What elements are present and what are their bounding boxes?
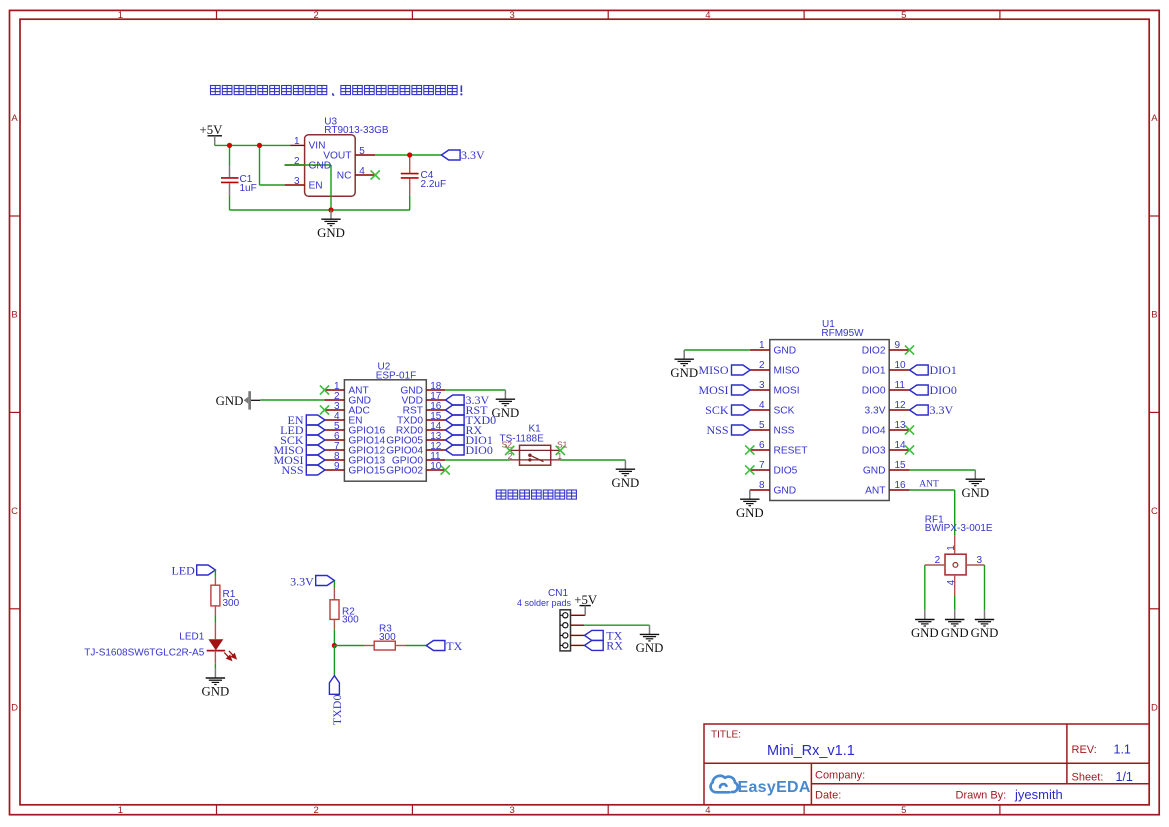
svg-text:300: 300: [379, 632, 396, 643]
svg-text:S1: S1: [557, 440, 568, 450]
svg-text:3: 3: [977, 555, 983, 566]
svg-text:1.1: 1.1: [1114, 743, 1131, 757]
svg-text:NC: NC: [337, 170, 352, 181]
svg-text:1: 1: [118, 10, 123, 21]
svg-text:Date:: Date:: [815, 790, 841, 802]
svg-text:ESP-01F: ESP-01F: [376, 370, 417, 381]
svg-text:7: 7: [759, 460, 765, 471]
svg-text:TJ-S1608SW6TGLC2R-A5: TJ-S1608SW6TGLC2R-A5: [84, 648, 204, 659]
svg-text:1: 1: [759, 340, 765, 351]
svg-text:11: 11: [895, 380, 906, 391]
svg-text:1/1: 1/1: [1116, 770, 1133, 784]
svg-text:9: 9: [334, 461, 340, 472]
svg-text:Mini_Rx_v1.1: Mini_Rx_v1.1: [767, 743, 855, 759]
svg-text:8: 8: [759, 480, 765, 491]
svg-text:3: 3: [294, 176, 300, 187]
svg-text:A: A: [11, 113, 18, 124]
svg-text:SCK: SCK: [705, 403, 729, 417]
svg-text:SCK: SCK: [774, 406, 795, 417]
svg-text:RX: RX: [606, 639, 623, 653]
svg-text:C: C: [11, 506, 18, 517]
svg-text:3.3V: 3.3V: [461, 148, 485, 162]
svg-text:5: 5: [759, 420, 765, 431]
svg-text:1: 1: [946, 545, 957, 551]
svg-text:GPIO02: GPIO02: [386, 465, 423, 476]
svg-text:Sheet:: Sheet:: [1072, 772, 1104, 784]
svg-text:jyesmith: jyesmith: [1014, 787, 1063, 802]
svg-text:1uF: 1uF: [240, 183, 257, 194]
svg-text:300: 300: [223, 598, 240, 609]
svg-text:LED1: LED1: [179, 632, 204, 643]
svg-text:3.3V: 3.3V: [930, 403, 954, 417]
svg-text:GND: GND: [774, 486, 797, 497]
svg-text:GPIO15: GPIO15: [348, 465, 385, 476]
svg-text:RT9013-33GB: RT9013-33GB: [324, 125, 389, 136]
svg-text:3: 3: [759, 380, 765, 391]
svg-text:3.3V: 3.3V: [290, 574, 314, 588]
svg-text:16: 16: [895, 480, 907, 491]
svg-text:DIO3: DIO3: [862, 446, 886, 457]
svg-text:EasyEDA: EasyEDA: [738, 779, 811, 796]
svg-text:1: 1: [294, 136, 300, 147]
svg-text:4: 4: [705, 805, 710, 816]
svg-text:MISO: MISO: [698, 363, 728, 377]
svg-text:15: 15: [895, 460, 907, 471]
svg-text:2: 2: [759, 360, 765, 371]
svg-text:DIO5: DIO5: [774, 466, 798, 477]
svg-text:ANT: ANT: [919, 480, 939, 490]
svg-text:A: A: [1151, 113, 1158, 124]
svg-text:NSS: NSS: [774, 426, 795, 437]
svg-text:4 solder pads: 4 solder pads: [517, 598, 572, 608]
svg-text:300: 300: [342, 615, 359, 626]
svg-text:DIO1: DIO1: [930, 363, 957, 377]
svg-text:B: B: [11, 310, 17, 321]
svg-text:MOSI: MOSI: [698, 383, 728, 397]
svg-text:5: 5: [901, 805, 906, 816]
svg-text:5: 5: [359, 146, 365, 157]
svg-text:RESET: RESET: [774, 446, 808, 457]
svg-text:ANT: ANT: [865, 486, 885, 497]
svg-text:DIO0: DIO0: [466, 443, 493, 457]
svg-text:2: 2: [294, 156, 300, 167]
svg-text:GND: GND: [774, 346, 797, 357]
svg-text:DIO0: DIO0: [862, 386, 886, 397]
svg-text:RFM95W: RFM95W: [821, 328, 864, 339]
svg-text:DIO1: DIO1: [862, 366, 886, 377]
svg-text:TX: TX: [446, 639, 462, 653]
svg-text:10: 10: [430, 461, 442, 472]
svg-text:14: 14: [895, 440, 907, 451]
svg-text:GND: GND: [216, 394, 244, 408]
svg-text:2: 2: [508, 451, 513, 461]
svg-text:2: 2: [935, 555, 941, 566]
svg-text:Drawn By:: Drawn By:: [956, 790, 1007, 802]
svg-text:3.3V: 3.3V: [865, 406, 886, 417]
svg-text:D: D: [11, 702, 18, 713]
svg-text:4: 4: [946, 579, 957, 585]
svg-text:3: 3: [509, 10, 514, 21]
svg-text:6: 6: [759, 440, 765, 451]
svg-text:MISO: MISO: [774, 366, 800, 377]
svg-text:NSS: NSS: [281, 463, 303, 477]
svg-text:LED: LED: [171, 564, 195, 578]
svg-text:NSS: NSS: [706, 423, 728, 437]
svg-text:+5V: +5V: [200, 123, 224, 137]
svg-text:13: 13: [895, 420, 907, 431]
svg-text:D: D: [1151, 702, 1158, 713]
svg-text:TXD0: TXD0: [330, 695, 344, 726]
svg-text:S2: S2: [502, 440, 513, 450]
svg-text:5: 5: [901, 10, 906, 21]
svg-text:1: 1: [118, 805, 123, 816]
svg-text:TITLE:: TITLE:: [711, 730, 741, 741]
svg-text:4: 4: [759, 400, 765, 411]
svg-text:C: C: [1151, 506, 1158, 517]
svg-text:3: 3: [509, 805, 514, 816]
svg-text:9: 9: [895, 340, 901, 351]
svg-text:4: 4: [359, 166, 365, 177]
svg-text:B: B: [1151, 310, 1157, 321]
svg-text:GND: GND: [309, 160, 332, 171]
svg-text:10: 10: [895, 360, 907, 371]
svg-text:DIO0: DIO0: [930, 383, 957, 397]
svg-text:2.2uF: 2.2uF: [421, 179, 447, 190]
svg-text:EN: EN: [309, 180, 323, 191]
svg-text:VOUT: VOUT: [323, 150, 351, 161]
svg-text:DIO2: DIO2: [862, 346, 886, 357]
svg-text:2: 2: [314, 10, 319, 21]
svg-text:BWIPX-3-001E: BWIPX-3-001E: [925, 523, 993, 534]
svg-text:4: 4: [705, 10, 710, 21]
svg-text:MOSI: MOSI: [774, 386, 800, 397]
svg-text:DIO4: DIO4: [862, 426, 886, 437]
svg-text:GND: GND: [863, 466, 886, 477]
svg-text:Company:: Company:: [815, 770, 865, 782]
svg-text:1: 1: [557, 451, 562, 461]
svg-text:2: 2: [314, 805, 319, 816]
svg-text:12: 12: [895, 400, 907, 411]
svg-text:REV:: REV:: [1072, 744, 1097, 756]
